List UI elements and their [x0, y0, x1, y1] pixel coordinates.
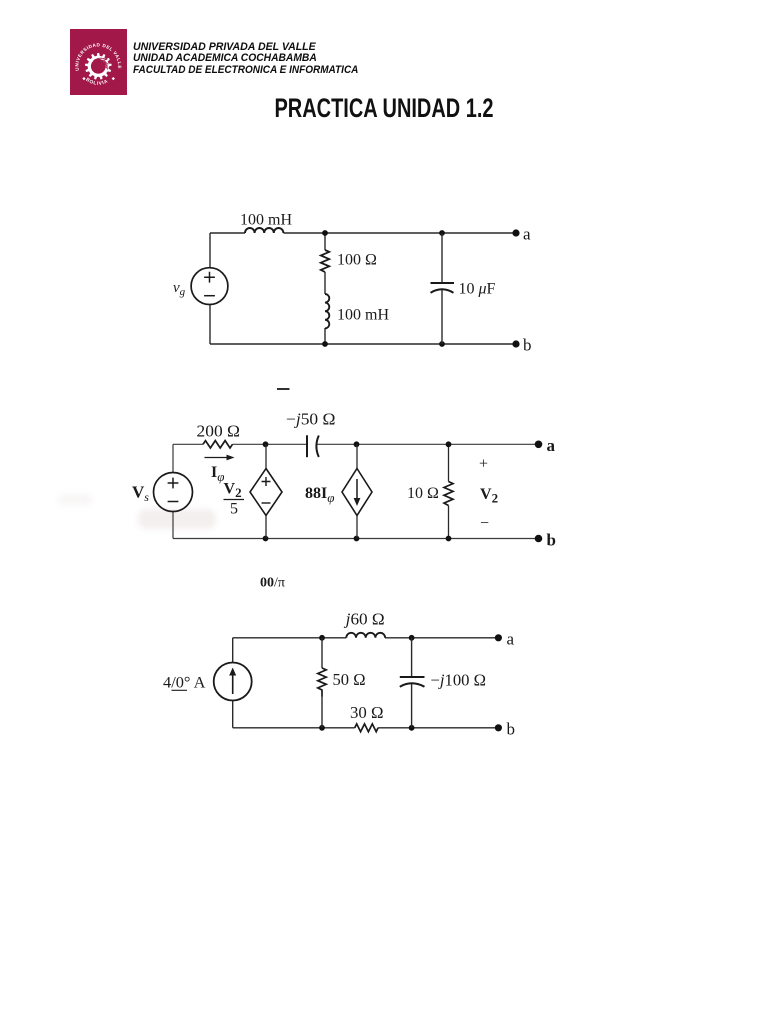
label 30 ohm c3: [350, 703, 384, 722]
terminal a c2: [535, 441, 543, 449]
inductor 100 mH vertical c1: [325, 294, 329, 328]
wire top rail c1: [210, 232, 516, 234]
label -j100 ohm c3: [431, 671, 487, 690]
svg-text:V2: V2: [480, 486, 498, 506]
junction cap-top c1: [439, 230, 445, 236]
terminal b c1: [512, 340, 519, 347]
plus in diamond1: [262, 477, 271, 486]
label 200 ohm c2: [197, 422, 241, 441]
junction cap-bottom c1: [439, 341, 445, 347]
dependent current source 88Iphi diamond c2: [342, 469, 372, 516]
junction node2-top c3: [409, 635, 415, 641]
wire 10ohm stubs c2: [448, 444, 450, 538]
arrow in source c3: [229, 668, 236, 695]
resistor 100 ohm c1: [321, 250, 329, 272]
svg-text:−j50 Ω: −j50 Ω: [286, 410, 336, 429]
junction middle-bottom c1: [322, 341, 328, 347]
svg-text:4/0° A: 4/0° A: [163, 675, 206, 692]
svg-text:b: b: [523, 336, 532, 355]
wire bottom rail c2: [173, 538, 539, 540]
wire 50ohm stubs c3: [321, 638, 323, 728]
label Vs: [132, 483, 149, 505]
label 88Iphi c2: [305, 485, 334, 505]
label 4 angle 0 A c3: [163, 675, 206, 692]
capacitor -j100 c3: [400, 677, 425, 687]
junction node2-bottom c3: [409, 725, 415, 731]
wire diamond1 stubs c2: [265, 444, 267, 538]
minus sign Vs: [168, 501, 179, 503]
plus sign Vs: [168, 478, 179, 489]
label j60 ohm c3: [344, 610, 385, 629]
label 50 ohm c3: [333, 670, 366, 689]
svg-text:100 mH: 100 mH: [240, 212, 292, 229]
label 00/pi: [260, 576, 285, 591]
terminal a c1: [512, 229, 519, 236]
inductor 100 mH top c1: [245, 228, 283, 233]
svg-text:b: b: [507, 720, 516, 739]
resistor 200 ohm c2: [203, 441, 233, 448]
wire left c3: [232, 638, 234, 728]
stray dash mark: [277, 388, 290, 390]
svg-text:a: a: [547, 436, 556, 455]
current arrow Iphi c2: [205, 455, 235, 461]
svg-text:200 Ω: 200 Ω: [197, 422, 241, 441]
junction node2-top c2: [354, 441, 360, 447]
svg-text:00/π: 00/π: [260, 576, 285, 591]
label 100 mH top c1: [240, 212, 292, 229]
faint scan smudges: [138, 509, 216, 529]
resistor 10 ohm c2: [444, 482, 453, 506]
logo Univalle: [70, 29, 127, 95]
svg-text:Iφ: Iφ: [211, 464, 224, 484]
title: [0, 93, 768, 124]
junction node1-top c3: [319, 635, 325, 641]
svg-text:Vs: Vs: [132, 483, 149, 505]
junction middle-top c1: [322, 230, 328, 236]
label 100 ohm c1: [337, 252, 377, 269]
voltage source vg c1: [191, 268, 228, 305]
label Iphi c2: [211, 464, 224, 484]
svg-text:j60 Ω: j60 Ω: [344, 610, 385, 629]
svg-text:10 Ω: 10 Ω: [407, 485, 439, 502]
minus label V2 c2: [480, 515, 489, 532]
svg-text:vg: vg: [173, 280, 186, 298]
svg-text:V2: V2: [224, 481, 242, 501]
svg-text:100 Ω: 100 Ω: [337, 252, 377, 269]
label vg: [173, 280, 186, 298]
wire top rail c2: [173, 443, 539, 445]
svg-text:100 mH: 100 mH: [337, 307, 389, 324]
inductor j60 c3: [346, 633, 385, 638]
wire diamond2 stubs c2: [356, 444, 358, 538]
terminal b c2: [535, 535, 543, 543]
plus label V2 c2: [479, 456, 488, 473]
plus sign vg: [204, 272, 215, 283]
wire bottom rail c1: [210, 343, 516, 345]
svg-text:+: +: [479, 456, 488, 473]
svg-text:5: 5: [230, 501, 238, 518]
minus sign vg: [204, 295, 215, 297]
wire capacitor stubs c3: [411, 638, 413, 728]
capacitor -j50 c2: [307, 435, 319, 457]
arrow in diamond2: [354, 479, 361, 506]
label 10 ohm c2: [407, 485, 439, 502]
terminal a c3: [495, 634, 502, 641]
junction resistor-top c2: [446, 441, 452, 447]
junction node1-top c2: [263, 441, 269, 447]
label 10 uF c1: [459, 281, 496, 298]
dependent source V2/5 diamond c2: [250, 469, 282, 516]
svg-text:a: a: [523, 225, 531, 244]
wire bottom rail c3: [233, 727, 499, 729]
terminal b c3: [495, 724, 502, 731]
svg-text:a: a: [507, 630, 515, 649]
svg-text:50 Ω: 50 Ω: [333, 670, 366, 689]
svg-text:30 Ω: 30 Ω: [350, 703, 384, 722]
voltage source Vs c2: [154, 473, 193, 512]
wire left c1: [209, 233, 211, 344]
capacitor 10 uF c1: [431, 283, 455, 293]
wire left c2: [172, 444, 174, 538]
svg-text:10 μF: 10 μF: [459, 281, 496, 298]
header text: [133, 42, 381, 76]
current source 4A c3: [214, 663, 252, 701]
wire capacitor branch c1: [441, 233, 443, 344]
svg-text:b: b: [547, 531, 556, 550]
label V2 c2: [480, 486, 498, 506]
label 100 mH vertical c1: [337, 307, 389, 324]
svg-text:−: −: [480, 515, 489, 532]
wire top rail c3: [233, 637, 499, 639]
svg-text:88Iφ: 88Iφ: [305, 485, 334, 505]
junction node2-bottom c2: [354, 536, 360, 542]
svg-text:−j100 Ω: −j100 Ω: [431, 671, 487, 690]
minus in diamond1: [262, 502, 271, 504]
junction node1-bottom c2: [263, 536, 269, 542]
resistor 30 ohm c3: [355, 724, 378, 732]
resistor 50 ohm c3: [318, 668, 326, 697]
junction resistor-bottom c2: [446, 536, 452, 542]
label V2 over 5: [224, 481, 245, 518]
wire middle branch c1: [324, 233, 326, 344]
junction node1-bottom c3: [319, 725, 325, 731]
label -j50 ohm c2: [286, 410, 336, 429]
